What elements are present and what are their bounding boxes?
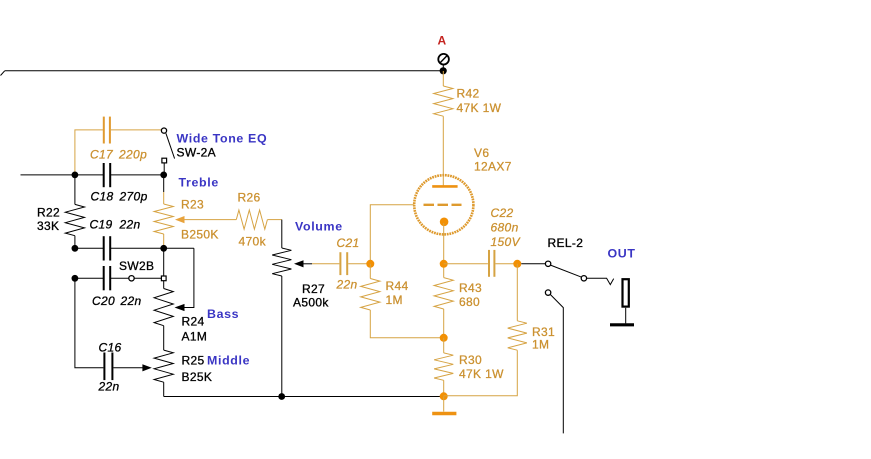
svg-text:R24: R24: [182, 315, 205, 329]
svg-text:SW2B: SW2B: [119, 259, 154, 273]
capacitor C18: [104, 163, 111, 187]
V6 cathode dot: [440, 218, 449, 227]
V6 plate bar: [432, 185, 457, 188]
R27 labels A500k: [293, 282, 329, 310]
resistor R44: [361, 264, 380, 310]
wire to bass wiper: [175, 248, 194, 311]
svg-text:V6: V6: [474, 146, 489, 160]
node dot C22 right: [513, 260, 521, 268]
capacitor C19: [104, 236, 111, 260]
svg-text:Wide Tone EQ: Wide Tone EQ: [177, 132, 268, 146]
capacitor C22 with leads: [444, 250, 518, 277]
jack J-OUT body: [623, 279, 629, 306]
capacitor C21 with leads: [312, 252, 370, 275]
potentiometer R23 treble: [154, 175, 173, 248]
R24 labels A1M: [182, 315, 208, 344]
SW-2A switch labels: [177, 132, 268, 160]
node dot left column top: [72, 172, 79, 179]
jack sleeve ground: [610, 308, 634, 325]
svg-text:1M: 1M: [386, 293, 403, 307]
svg-text:Treble: Treble: [179, 176, 219, 190]
node dot ground: [440, 392, 448, 400]
wire node A to R42: [442, 71, 444, 86]
relay REL-2 contact 2 (lower): [545, 290, 563, 434]
resistor R42: [434, 86, 453, 116]
potentiometer R24 bass: [154, 281, 173, 350]
svg-text:R25: R25: [182, 354, 205, 368]
wire bottom rail tone stack to ground node: [164, 396, 444, 398]
wire relay to jack tip spring: [587, 278, 614, 284]
svg-text:22n: 22n: [336, 278, 358, 292]
R27 wiper arrow: [294, 260, 312, 267]
C16 labels 22n: [98, 341, 122, 394]
capacitor C17 with leads: [75, 117, 162, 175]
wire left column down to C16: [75, 278, 104, 368]
R22 labels 33K: [37, 206, 60, 234]
svg-text:1M: 1M: [532, 338, 549, 352]
svg-text:47K 1W: 47K 1W: [459, 367, 504, 381]
C21 labels 22n: [336, 236, 360, 292]
svg-text:R30: R30: [459, 353, 482, 367]
svg-text:150V: 150V: [491, 235, 521, 249]
svg-text:REL-2: REL-2: [548, 236, 584, 250]
wire R42 to plate of V6: [442, 116, 444, 186]
relay REL-2 contact 1: [545, 261, 550, 266]
svg-text:C18270p: C18270p: [91, 190, 148, 204]
svg-text:B250K: B250K: [181, 228, 219, 242]
wire row y=278.3 through C20 to SW2B: [75, 277, 129, 279]
svg-text:R43: R43: [459, 281, 482, 295]
svg-text:47K 1W: 47K 1W: [457, 101, 502, 115]
svg-text:A: A: [438, 34, 447, 48]
relay REL-2 common contact: [581, 276, 586, 281]
C22 labels 680n 150V: [491, 206, 521, 249]
svg-text:R23: R23: [181, 198, 204, 212]
wire row y=248 through C19: [75, 247, 194, 249]
svg-text:A500k: A500k: [293, 296, 329, 310]
R23 wiper arrow from R26: [175, 216, 236, 223]
op-amp? no: triode V6 envelope circle: [414, 175, 473, 234]
svg-text:C21: C21: [337, 236, 360, 250]
svg-text:Bass: Bass: [207, 307, 239, 321]
svg-text:R27: R27: [302, 282, 325, 296]
svg-text:Middle: Middle: [207, 354, 250, 368]
capacitor C16: [104, 353, 142, 381]
svg-text:SW-2A: SW-2A: [177, 146, 217, 160]
switch SW-2A: [161, 128, 174, 175]
potentiometer R25 middle: [154, 350, 173, 396]
resistor R43: [434, 264, 453, 338]
node dot left column C20 row: [72, 275, 79, 282]
svg-text:B25K: B25K: [182, 370, 213, 384]
junction dot at node A: [440, 67, 447, 74]
resistor R31: [444, 264, 527, 396]
svg-text:22n: 22n: [98, 380, 120, 394]
svg-text:33K: 33K: [37, 219, 59, 233]
wire C22 node to relay REL-2: [521, 263, 545, 265]
svg-text:A1M: A1M: [182, 330, 208, 344]
node dot R43/R44/R30: [440, 334, 448, 342]
resistor R22: [65, 175, 84, 248]
resistor R30: [434, 338, 453, 397]
svg-text:470k: 470k: [239, 235, 267, 249]
svg-text:C22: C22: [491, 206, 514, 220]
V6 grid (dashed): [424, 204, 462, 206]
svg-text:12AX7: 12AX7: [474, 160, 512, 174]
svg-text:R22: R22: [37, 206, 60, 220]
R25 labels B25K: [182, 354, 213, 385]
wire top rail from left edge to node A: [1, 71, 444, 76]
R44 labels 1M: [386, 279, 409, 307]
node dot R27 bottom: [278, 393, 285, 400]
R23 labels B250K: [181, 198, 219, 242]
C16 wiper arrow into R25: [142, 364, 151, 371]
R31 labels 1M: [532, 325, 555, 352]
ground symbol: [432, 396, 456, 413]
svg-text:C17220p: C17220p: [90, 148, 147, 162]
terminal A (circle with slash): [438, 54, 449, 71]
relay blade: [551, 265, 582, 277]
svg-text:C16: C16: [99, 341, 122, 355]
wire input row y=175: [21, 174, 164, 176]
node dot treble bottom: [160, 245, 167, 252]
svg-text:680n: 680n: [491, 221, 519, 235]
svg-text:OUT: OUT: [608, 247, 636, 261]
node dot treble top: [160, 172, 167, 179]
svg-text:R44: R44: [386, 279, 409, 293]
V6 tube labels: [474, 146, 512, 174]
R42 value labels 47K 1W: [457, 87, 502, 116]
wire R44 bottom to R43/R30 node: [370, 310, 443, 338]
potentiometer R27 volume: [272, 248, 291, 397]
switch SW2B: [129, 248, 166, 281]
node dot left column mid: [72, 245, 79, 252]
resistor R26: [236, 210, 267, 229]
node grid junction dot: [366, 260, 374, 268]
svg-text:R42: R42: [457, 87, 480, 101]
R26 labels 470k: [238, 191, 267, 249]
wire R26 to volume pot R27: [267, 220, 281, 248]
R43 labels 680: [459, 281, 482, 309]
capacitor C20: [104, 266, 111, 290]
wire grid lead to node C21/R44: [370, 205, 414, 264]
svg-text:R26: R26: [238, 191, 261, 205]
R30 labels 47K 1W: [459, 353, 504, 381]
svg-text:680: 680: [459, 295, 480, 309]
svg-text:Volume: Volume: [295, 220, 343, 234]
node dot cathode row: [440, 260, 448, 268]
wire cathode down to node: [443, 223, 445, 264]
